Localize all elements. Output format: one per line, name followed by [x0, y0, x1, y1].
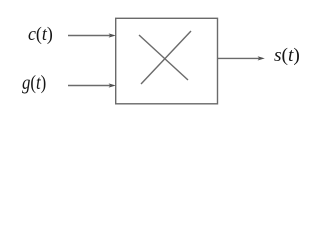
arrowhead input c(t) [109, 33, 116, 37]
arrowhead output s(t) [258, 56, 265, 60]
multiplier X stroke / [141, 31, 191, 84]
wire input c(t) [68, 35, 110, 37]
multiplier block box [116, 18, 218, 104]
label s(t) [274, 46, 300, 65]
multiplier X stroke \ [139, 35, 188, 80]
wire diagram svg [0, 0, 310, 112]
wire input g(t) [68, 85, 110, 87]
label g(t) [22, 73, 46, 93]
label c(t) [28, 25, 53, 44]
wire output s(t) [218, 57, 260, 59]
arrowhead input g(t) [109, 83, 116, 87]
